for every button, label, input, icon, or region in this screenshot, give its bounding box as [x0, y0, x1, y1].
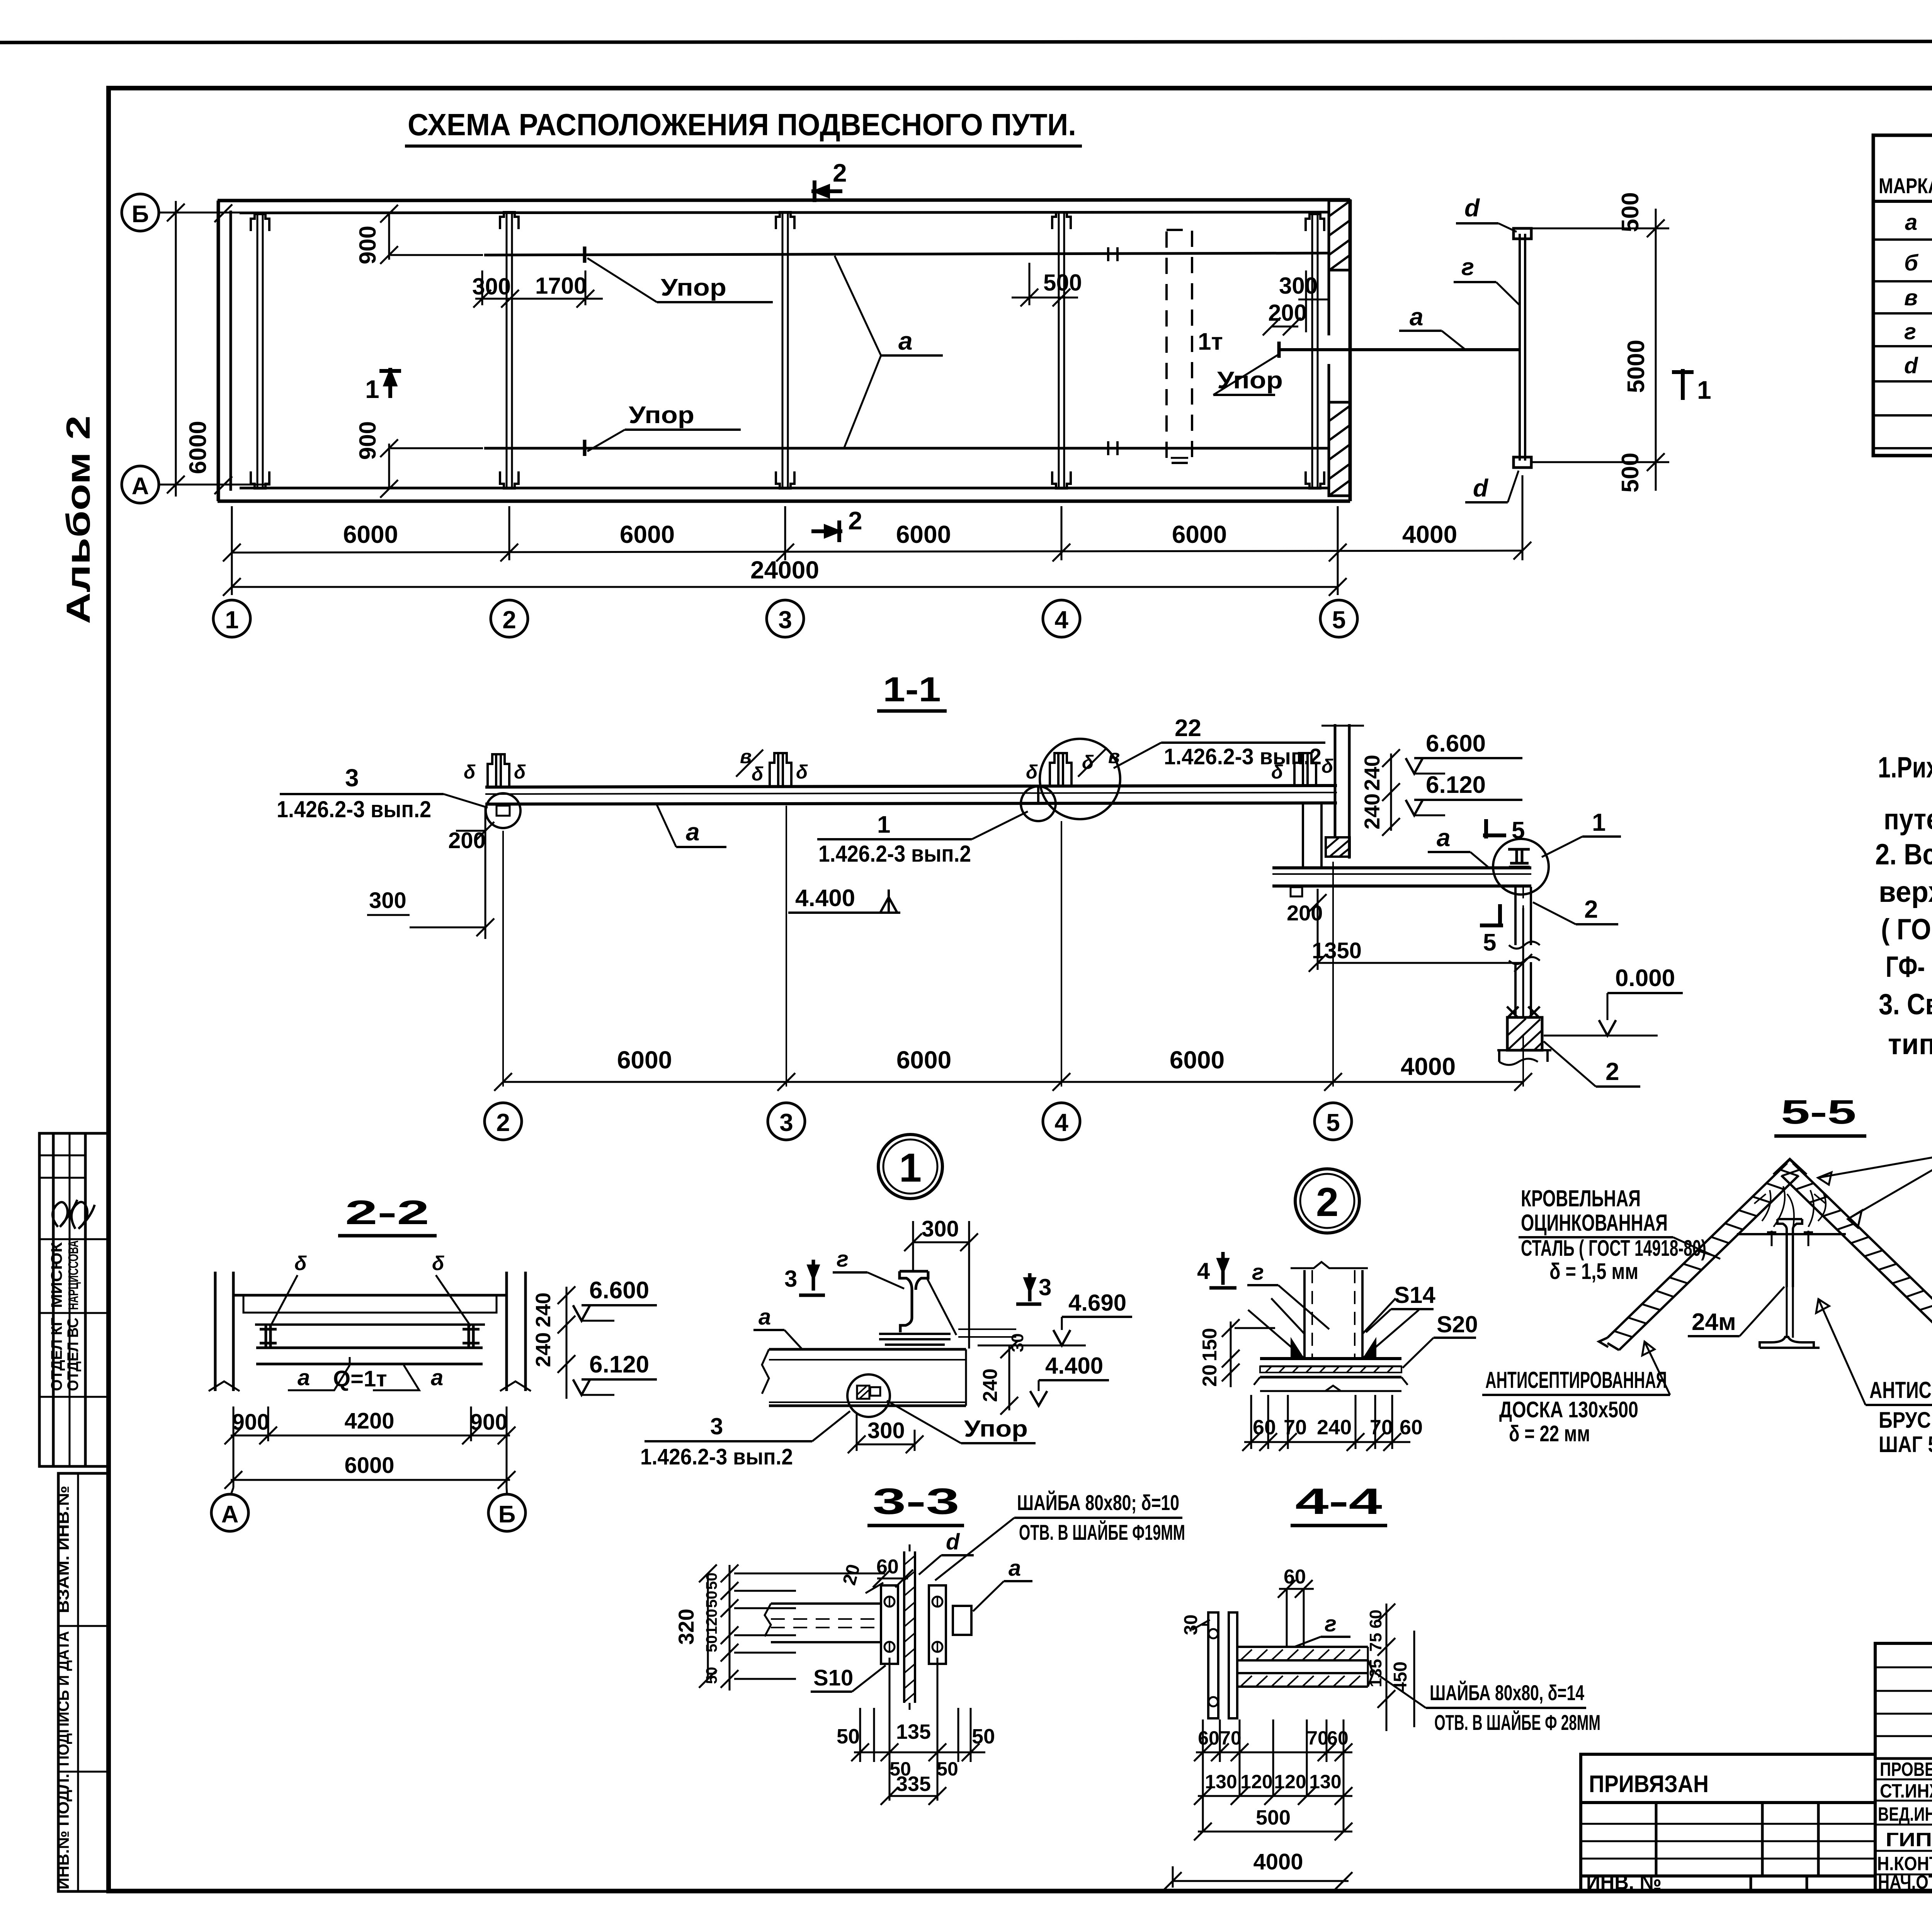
svg-text:2: 2 — [1584, 895, 1598, 923]
svg-text:6000: 6000 — [896, 520, 951, 548]
dim 240 240 (2-2) — [558, 1286, 575, 1399]
svg-text:ВЕД.ИНЖ: ВЕД.ИНЖ — [1878, 1803, 1932, 1825]
svg-text:2-2: 2-2 — [345, 1193, 429, 1231]
svg-text:320: 320 — [674, 1609, 698, 1645]
svg-text:4.400: 4.400 — [795, 885, 855, 912]
svg-text:S14: S14 — [1394, 1282, 1435, 1308]
suspension beam grid 3 — [782, 213, 784, 488]
svg-text:60: 60 — [1284, 1566, 1306, 1588]
svg-text:1: 1 — [365, 375, 379, 403]
svg-text:типа Э-42 ГОСТ 9467-75, h: типа Э-42 ГОСТ 9467-75, h шва = 6 мм. Ти… — [1888, 1028, 1932, 1061]
strip signatures — [53, 1200, 95, 1229]
svg-text:4.400: 4.400 — [1045, 1353, 1103, 1379]
svg-text:60: 60 — [1366, 1610, 1385, 1629]
suspension beam grid 2 — [506, 213, 508, 488]
svg-text:6000: 6000 — [1170, 1046, 1225, 1074]
svg-text:240: 240 — [1317, 1416, 1352, 1439]
svg-text:3: 3 — [784, 1266, 797, 1292]
3-3 bottom dims — [851, 1658, 985, 1805]
node2 bottom dims — [1242, 1395, 1410, 1451]
svg-text:ИНВ. №: ИНВ. № — [1586, 1870, 1662, 1894]
svg-text:4-4: 4-4 — [1295, 1481, 1382, 1522]
svg-text:4: 4 — [1054, 1109, 1068, 1136]
node1 small dims 10 10 30 — [958, 1328, 1016, 1330]
svg-text:6000: 6000 — [620, 520, 675, 548]
svg-text:70: 70 — [1220, 1727, 1242, 1749]
svg-text:3-3: 3-3 — [872, 1481, 959, 1522]
svg-text:Б: Б — [132, 201, 149, 228]
svg-text:1.Рихтовка подкрановых путе: 1.Рихтовка подкрановых путей по вертикал… — [1878, 751, 1932, 784]
svg-text:АНТИСЕПТИРОВАННАЯ: АНТИСЕПТИРОВАННАЯ — [1485, 1367, 1667, 1393]
anchor crosses — [1507, 1007, 1540, 1018]
node1 rail pad plates — [879, 1333, 951, 1335]
4-4 bottom dims row2 — [1194, 1787, 1352, 1805]
svg-text:путем установки набора прок: путем установки набора прокладок. — [1884, 803, 1932, 836]
svg-text:6.120: 6.120 — [1426, 772, 1486, 798]
node1 beam — [769, 1348, 966, 1351]
svg-text:а: а — [1437, 824, 1451, 852]
svg-text:4200: 4200 — [344, 1408, 394, 1434]
svg-text:70: 70 — [1307, 1727, 1328, 1749]
svg-text:5000: 5000 — [1623, 340, 1650, 393]
svg-text:4000: 4000 — [1253, 1849, 1303, 1874]
grid bubble Б — [122, 194, 159, 231]
svg-text:75: 75 — [1366, 1633, 1385, 1652]
bolts at tie — [1767, 1231, 1813, 1246]
svg-text:ОТДЕЛ ВС: ОТДЕЛ ВС — [65, 1318, 82, 1391]
svg-text:а: а — [759, 1304, 771, 1330]
pilaster hatch top — [1329, 201, 1350, 270]
svg-text:6000: 6000 — [617, 1046, 672, 1074]
svg-text:Упор: Упор — [964, 1416, 1028, 1442]
svg-text:ПОДПИСЬ И ДАТА: ПОДПИСЬ И ДАТА — [54, 1631, 72, 1766]
dim 900 top — [380, 205, 483, 264]
svg-text:3: 3 — [779, 1109, 793, 1136]
svg-text:МАРКА: МАРКА — [1879, 173, 1932, 198]
svg-text:δ: δ — [432, 1252, 444, 1275]
svg-text:НАЧ.ОТД: НАЧ.ОТД — [1878, 1871, 1932, 1893]
bracket top grid1 — [251, 214, 269, 231]
svg-text:6.600: 6.600 — [589, 1277, 649, 1304]
svg-text:1: 1 — [225, 606, 239, 634]
sheet top edge — [0, 41, 1932, 43]
svg-text:КРОВЕЛЬНАЯ: КРОВЕЛЬНАЯ — [1521, 1185, 1641, 1211]
svg-text:60: 60 — [1327, 1727, 1349, 1749]
svg-text:СТ.ИНЖ.: СТ.ИНЖ. — [1880, 1780, 1932, 1802]
svg-text:ГФ- 0119 ( ГОСТ 23343-78).: ГФ- 0119 ( ГОСТ 23343-78). — [1886, 951, 1932, 983]
svg-text:г: г — [1252, 1260, 1264, 1285]
svg-text:δ: δ — [514, 761, 526, 783]
svg-text:1.426.2-3 вып.2: 1.426.2-3 вып.2 — [277, 796, 431, 822]
svg-text:0.000: 0.000 — [1615, 965, 1675, 992]
svg-text:135: 135 — [1366, 1659, 1385, 1687]
svg-text:200: 200 — [1268, 300, 1307, 326]
svg-text:60: 60 — [1253, 1416, 1276, 1439]
svg-text:1350: 1350 — [1312, 938, 1362, 963]
column below lower beam — [1509, 887, 1540, 1016]
svg-text:а: а — [898, 327, 913, 355]
svg-text:60: 60 — [1198, 1727, 1219, 1749]
svg-text:50: 50 — [703, 1635, 720, 1653]
svg-text:500: 500 — [1256, 1806, 1291, 1829]
svg-text:δ = 1,5 мм: δ = 1,5 мм — [1549, 1259, 1638, 1284]
svg-text:900: 900 — [355, 226, 381, 264]
svg-text:6000: 6000 — [185, 421, 211, 474]
svg-text:1.426.2-3 вып.2: 1.426.2-3 вып.2 — [1164, 744, 1321, 769]
lower runway beam — [1272, 866, 1531, 869]
svg-text:ДОСКА 130х500: ДОСКА 130х500 — [1499, 1397, 1638, 1422]
bottom dimension row 1 — [223, 475, 1531, 595]
svg-text:δ: δ — [752, 763, 764, 785]
svg-text:ШАЙБА 80х80, δ=14: ШАЙБА 80х80, δ=14 — [1430, 1680, 1584, 1705]
svg-text:ОТВ. В ШАЙБЕ Ф19ММ: ОТВ. В ШАЙБЕ Ф19ММ — [1019, 1520, 1185, 1544]
svg-text:г: г — [1461, 254, 1474, 281]
svg-text:60: 60 — [1400, 1416, 1423, 1439]
section mark 5 bottom — [1480, 904, 1503, 925]
hanger right — [463, 1325, 480, 1348]
svg-text:БРУС 130х100 (h): БРУС 130х100 (h) — [1879, 1408, 1932, 1433]
section grid bubbles — [485, 1103, 522, 1140]
svg-text:6000: 6000 — [896, 1046, 951, 1074]
svg-text:Б: Б — [498, 1501, 516, 1528]
svg-text:24000: 24000 — [750, 556, 819, 584]
svg-text:240: 240 — [532, 1293, 555, 1327]
section mark 1 in plan — [379, 368, 401, 398]
suspension beam grid 5 — [1311, 215, 1313, 488]
svg-text:1: 1 — [1697, 376, 1711, 404]
top wall — [218, 200, 1350, 201]
svg-text:б: б — [1904, 250, 1919, 276]
svg-text:а: а — [686, 818, 700, 846]
svg-text:г: г — [837, 1247, 849, 1272]
svg-text:в: в — [1904, 285, 1918, 310]
svg-text:5: 5 — [1332, 606, 1346, 634]
bracket bottom grid1 — [251, 471, 269, 488]
svg-text:240: 240 — [979, 1369, 1002, 1402]
hanger grid4 (circled) — [1050, 753, 1071, 786]
svg-text:г: г — [1325, 1611, 1337, 1636]
svg-text:300: 300 — [369, 888, 406, 913]
hanger grid3 — [770, 753, 791, 786]
svg-text:δ: δ — [1026, 761, 1038, 783]
4-4 dim 4000 — [1164, 1866, 1352, 1890]
svg-text:5: 5 — [1326, 1109, 1340, 1136]
svg-text:120: 120 — [1240, 1771, 1272, 1793]
crane track bottom — [484, 447, 1329, 450]
svg-text:ПРОВЕР.: ПРОВЕР. — [1880, 1759, 1932, 1780]
svg-text:3: 3 — [778, 606, 792, 634]
3-3 plates — [881, 1585, 898, 1664]
svg-text:5: 5 — [1512, 817, 1525, 844]
section axes — [503, 806, 1523, 1087]
svg-text:30: 30 — [1181, 1614, 1201, 1635]
svg-text:6000: 6000 — [343, 520, 398, 548]
svg-text:50: 50 — [972, 1725, 995, 1748]
dims 900 4200 900 — [224, 1406, 515, 1488]
svg-text:4: 4 — [1197, 1258, 1210, 1284]
svg-text:335: 335 — [896, 1772, 931, 1796]
svg-text:1: 1 — [1592, 808, 1606, 836]
privyazan box — [1581, 1754, 1875, 1891]
rail on lower beam right end — [1508, 849, 1530, 867]
svg-text:2. Все стальные конструкци: 2. Все стальные конструкции ( кроме ездо… — [1875, 838, 1932, 871]
grid bubbles 1-5 — [213, 600, 250, 637]
svg-text:240: 240 — [1360, 793, 1384, 829]
3-3 beam — [771, 1602, 881, 1605]
right wall with pilasters — [1328, 212, 1330, 335]
grid bubble А — [122, 466, 159, 503]
exit monorail line — [1279, 348, 1521, 351]
svg-text:3. Сварку производить по: 3. Сварку производить по ГОСТ 5264-80 эл… — [1879, 988, 1932, 1021]
svg-text:4: 4 — [1054, 606, 1068, 634]
section mark 5 top — [1483, 819, 1506, 838]
node2 base plates — [1260, 1357, 1401, 1360]
inventory strip lower — [58, 1473, 108, 1891]
svg-text:СХЕМА РАСПОЛОЖЕНИЯ ПОДВЕСНОГ: СХЕМА РАСПОЛОЖЕНИЯ ПОДВЕСНОГО ПУТИ. — [408, 107, 1076, 142]
svg-text:а: а — [298, 1365, 310, 1390]
svg-text:2: 2 — [496, 1109, 510, 1136]
right roof slope — [1793, 1163, 1932, 1338]
svg-text:300: 300 — [922, 1216, 959, 1242]
svg-text:2: 2 — [502, 606, 516, 634]
svg-text:δ: δ — [464, 761, 476, 783]
node1 upor circle — [847, 1374, 890, 1417]
svg-text:δ = 22 мм: δ = 22 мм — [1509, 1421, 1590, 1446]
svg-text:50: 50 — [837, 1725, 860, 1748]
svg-text:а: а — [1905, 210, 1917, 235]
svg-text:4000: 4000 — [1402, 520, 1457, 548]
section mark 1 right — [1672, 369, 1694, 400]
svg-text:2: 2 — [833, 158, 847, 187]
suspension beam grid 1 — [257, 215, 259, 488]
svg-text:3: 3 — [710, 1413, 723, 1439]
small clamp under lower beam left — [1291, 887, 1302, 896]
svg-text:120: 120 — [703, 1609, 720, 1635]
4-4 dim 500 — [1194, 1823, 1352, 1840]
node2 gussets — [1248, 1298, 1419, 1358]
3-3 left dims — [699, 1565, 885, 1690]
signature table — [1875, 1643, 1932, 1891]
svg-text:а: а — [1009, 1556, 1021, 1581]
svg-text:верхности) окрасить двумя с: верхности) окрасить двумя слоями масляно… — [1879, 876, 1932, 908]
3-3 rod — [903, 1551, 905, 1703]
section dim row — [494, 1073, 1532, 1091]
svg-text:δ: δ — [796, 761, 808, 783]
svg-text:300: 300 — [472, 274, 511, 299]
svg-text:ГИП: ГИП — [1886, 1829, 1932, 1850]
svg-text:900: 900 — [232, 1410, 270, 1435]
svg-text:300: 300 — [1279, 273, 1318, 299]
track end stop tick bottom — [583, 440, 587, 456]
svg-text:1: 1 — [877, 811, 890, 838]
hanger left — [260, 1325, 277, 1348]
4-4 beams — [1237, 1646, 1368, 1648]
approval strip upper — [39, 1133, 108, 1466]
svg-text:5: 5 — [1483, 929, 1496, 956]
detail circle 1 — [878, 1134, 942, 1199]
node1 rail — [900, 1271, 928, 1332]
svg-text:ВЗАМ. ИНВ.№: ВЗАМ. ИНВ.№ — [54, 1486, 72, 1613]
hanger grid2 — [488, 754, 509, 787]
svg-text:450: 450 — [1390, 1662, 1411, 1692]
dim 6000 left vertical — [175, 201, 177, 497]
detail circle at rail — [1493, 839, 1549, 895]
runway beam 2-2 — [256, 1347, 483, 1349]
svg-text:200: 200 — [448, 828, 486, 853]
wall bracket hatched — [1326, 837, 1350, 857]
4-4 vertical plates — [1208, 1612, 1218, 1718]
svg-text:150: 150 — [1199, 1328, 1221, 1362]
svg-text:d: d — [1904, 353, 1918, 378]
dim 6000 (2-2) — [224, 1471, 515, 1489]
svg-text:50: 50 — [937, 1758, 958, 1780]
svg-text:24м: 24м — [1692, 1309, 1736, 1335]
tie board — [1737, 1233, 1846, 1235]
track end stop tick top — [583, 247, 587, 263]
svg-text:2: 2 — [1316, 1180, 1338, 1225]
svg-text:2: 2 — [1605, 1058, 1619, 1085]
svg-text:ШАГ 500: ШАГ 500 — [1879, 1432, 1932, 1457]
svg-text:6000: 6000 — [344, 1453, 394, 1478]
left wall — [217, 201, 220, 501]
svg-text:А: А — [221, 1501, 239, 1528]
svg-text:22: 22 — [1175, 715, 1201, 742]
node2 column — [1303, 1270, 1306, 1359]
footing — [1497, 1017, 1551, 1065]
svg-text:5-5: 5-5 — [1781, 1093, 1856, 1131]
bottom wall — [218, 500, 1350, 503]
left end clamp detail circle — [486, 793, 520, 828]
svg-text:900: 900 — [355, 421, 381, 460]
section mark 2 top — [811, 180, 842, 202]
svg-text:ПРИВЯЗАН: ПРИВЯЗАН — [1589, 1771, 1709, 1798]
wall column right — [1334, 724, 1337, 837]
wood grain — [1762, 1186, 1826, 1229]
svg-text:70: 70 — [1284, 1416, 1307, 1439]
track tick marks at beams — [1108, 247, 1117, 455]
svg-text:50: 50 — [703, 1573, 720, 1590]
svg-text:δ: δ — [294, 1252, 307, 1275]
I-beam 24M — [1777, 1219, 1802, 1287]
svg-text:а: а — [1410, 303, 1423, 331]
svg-text:6.600: 6.600 — [1426, 730, 1486, 757]
left wall 2-2 — [214, 1272, 217, 1391]
svg-text:d: d — [1464, 194, 1480, 222]
ceiling slab — [233, 1294, 507, 1297]
4-4 right dims — [1378, 1604, 1414, 1731]
svg-text:а: а — [431, 1365, 443, 1390]
svg-text:Упор: Упор — [629, 402, 694, 429]
svg-text:900: 900 — [470, 1410, 508, 1435]
pilaster hatch bottom — [1329, 402, 1350, 496]
right wall 2-2 — [505, 1272, 508, 1391]
svg-text:120: 120 — [1274, 1771, 1306, 1793]
svg-text:500: 500 — [1043, 270, 1082, 296]
svg-text:d: d — [946, 1529, 960, 1554]
splice circle — [1021, 786, 1056, 821]
left roof slope — [1607, 1163, 1787, 1338]
hanging column to lower runway — [1302, 804, 1304, 868]
svg-text:ИНВ.№ ПОДЛ.: ИНВ.№ ПОДЛ. — [54, 1774, 72, 1889]
svg-text:6.120: 6.120 — [589, 1351, 649, 1378]
svg-text:1-1: 1-1 — [883, 670, 941, 709]
svg-text:А: А — [132, 473, 149, 500]
svg-text:МИСЮК: МИСЮК — [48, 1242, 65, 1308]
svg-text:1т: 1т — [1198, 328, 1223, 355]
svg-text:135: 135 — [896, 1720, 931, 1743]
svg-text:d: d — [1473, 474, 1489, 502]
dim 900 bottom — [380, 439, 483, 498]
svg-text:130: 130 — [1309, 1771, 1341, 1793]
svg-text:50: 50 — [703, 1667, 720, 1684]
svg-text:( ГОСТ 8292-85) по грунтовке: ( ГОСТ 8292-85) по грунтовке ГФ-021 ( ГО… — [1881, 913, 1932, 946]
node2 dims 150 20 — [1222, 1319, 1275, 1387]
svg-text:АНТИСЕПТИРОВАННЫЙ: АНТИСЕПТИРОВАННЫЙ — [1869, 1377, 1932, 1403]
svg-text:S20: S20 — [1437, 1311, 1478, 1337]
svg-text:20: 20 — [1199, 1364, 1221, 1387]
hoist dashed outline — [1167, 230, 1192, 463]
svg-text:500: 500 — [1617, 192, 1644, 232]
svg-text:НАРЦИССОВА: НАРЦИССОВА — [65, 1240, 81, 1310]
outdoor support beam — [1519, 234, 1521, 461]
bubbles А Б (2-2) — [231, 1488, 233, 1494]
table grid — [1873, 135, 1932, 456]
svg-text:Альбом 2: Альбом 2 — [60, 415, 97, 624]
svg-text:3: 3 — [1039, 1274, 1051, 1300]
hanger near wall — [1294, 753, 1316, 786]
svg-text:300: 300 — [867, 1418, 905, 1443]
svg-text:60: 60 — [876, 1556, 899, 1578]
svg-text:ОТДЕЛ КГ: ОТДЕЛ КГ — [48, 1318, 65, 1391]
svg-text:δ: δ — [1321, 755, 1333, 777]
svg-text:240: 240 — [532, 1332, 555, 1367]
svg-text:50: 50 — [703, 1591, 720, 1608]
detail circle 2 — [1295, 1169, 1359, 1233]
svg-text:1: 1 — [899, 1145, 922, 1190]
svg-text:ОЦИНКОВАННАЯ: ОЦИНКОВАННАЯ — [1521, 1210, 1668, 1236]
svg-text:1700: 1700 — [535, 273, 587, 299]
ridge cap — [1774, 1159, 1806, 1175]
4-4 bottom dims row1 — [1194, 1719, 1352, 1832]
runway beam (element a) — [485, 786, 1337, 787]
svg-text:г: г — [1904, 319, 1916, 344]
svg-text:ОТВ. В ШАЙБЕ Ф 28ММ: ОТВ. В ШАЙБЕ Ф 28ММ — [1434, 1710, 1600, 1735]
suspension beam grid 4 — [1058, 213, 1060, 488]
crane track top — [484, 253, 1329, 255]
section mark 2 bottom — [811, 520, 842, 542]
svg-text:S10: S10 — [813, 1665, 853, 1690]
bottom dimension row 2 (24000) — [223, 578, 1347, 596]
svg-text:4000: 4000 — [1401, 1053, 1456, 1080]
svg-text:3: 3 — [345, 764, 359, 792]
svg-text:Упор: Упор — [661, 274, 726, 301]
svg-text:1.426.2-3 вып.2: 1.426.2-3 вып.2 — [640, 1444, 793, 1469]
svg-text:30: 30 — [1008, 1333, 1027, 1352]
svg-text:2: 2 — [848, 506, 862, 535]
svg-text:500: 500 — [1617, 452, 1644, 492]
svg-text:130: 130 — [1205, 1771, 1237, 1793]
svg-text:ШАЙБА 80х80; δ=10: ШАЙБА 80х80; δ=10 — [1017, 1490, 1179, 1515]
svg-text:240: 240 — [1360, 755, 1384, 791]
svg-text:70: 70 — [1370, 1416, 1393, 1439]
svg-text:1.426.2-3 вып.2: 1.426.2-3 вып.2 — [818, 841, 971, 867]
dim 5000 right — [1531, 209, 1669, 491]
svg-text:6000: 6000 — [1172, 520, 1227, 548]
svg-text:4.690: 4.690 — [1068, 1290, 1126, 1316]
3-3 stub right — [953, 1606, 971, 1635]
